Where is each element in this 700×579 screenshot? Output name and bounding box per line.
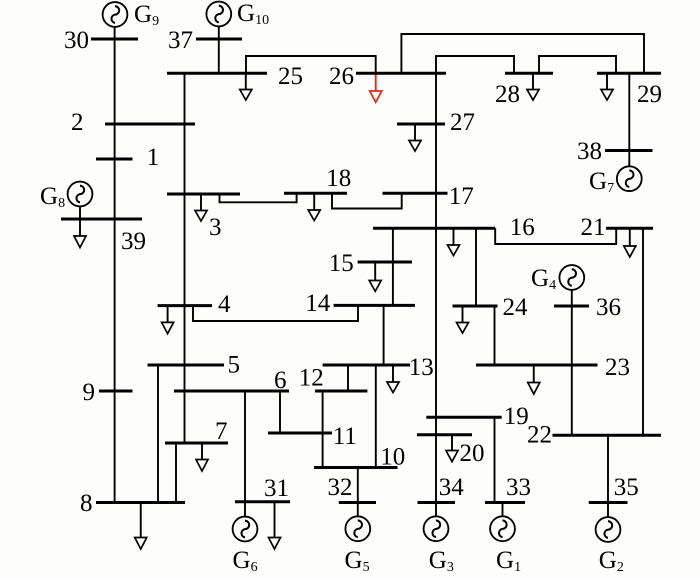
- svg-text:G6: G6: [233, 547, 258, 575]
- svg-text:6: 6: [274, 367, 287, 394]
- svg-text:14: 14: [305, 290, 331, 317]
- svg-text:G8: G8: [40, 183, 65, 211]
- svg-text:30: 30: [64, 27, 89, 54]
- svg-text:33: 33: [506, 474, 531, 501]
- svg-text:22: 22: [527, 422, 552, 449]
- svg-text:5: 5: [228, 352, 241, 379]
- svg-text:31: 31: [264, 475, 289, 502]
- svg-text:G9: G9: [134, 1, 159, 29]
- svg-text:G10: G10: [237, 0, 269, 28]
- svg-text:G5: G5: [345, 547, 370, 575]
- svg-text:G2: G2: [599, 547, 624, 575]
- svg-text:32: 32: [328, 474, 353, 501]
- svg-text:11: 11: [333, 423, 357, 450]
- svg-text:10: 10: [380, 444, 405, 471]
- svg-text:2: 2: [71, 109, 84, 136]
- svg-text:38: 38: [577, 138, 602, 165]
- svg-text:7: 7: [215, 418, 228, 445]
- svg-text:20: 20: [460, 440, 485, 467]
- svg-text:G1: G1: [496, 547, 521, 575]
- svg-text:G3: G3: [429, 547, 454, 575]
- svg-text:4: 4: [218, 291, 231, 318]
- svg-text:19: 19: [504, 403, 529, 430]
- svg-text:39: 39: [121, 228, 146, 255]
- svg-text:G7: G7: [589, 168, 614, 196]
- svg-text:8: 8: [80, 490, 93, 517]
- svg-text:29: 29: [637, 81, 662, 108]
- svg-text:25: 25: [278, 63, 303, 90]
- svg-text:34: 34: [439, 474, 465, 501]
- svg-text:12: 12: [299, 365, 324, 392]
- svg-text:23: 23: [605, 354, 630, 381]
- svg-text:17: 17: [449, 183, 474, 210]
- svg-text:36: 36: [596, 294, 621, 321]
- svg-text:13: 13: [409, 354, 434, 381]
- svg-text:3: 3: [209, 214, 222, 241]
- svg-text:35: 35: [614, 474, 639, 501]
- svg-text:26: 26: [329, 63, 354, 90]
- svg-text:18: 18: [326, 165, 351, 192]
- svg-text:15: 15: [329, 250, 354, 277]
- svg-text:21: 21: [581, 214, 606, 241]
- svg-text:28: 28: [495, 81, 520, 108]
- svg-text:37: 37: [168, 27, 193, 54]
- svg-text:G4: G4: [531, 265, 556, 293]
- svg-text:16: 16: [510, 214, 535, 241]
- svg-text:24: 24: [503, 294, 529, 321]
- svg-text:9: 9: [83, 379, 96, 406]
- svg-text:1: 1: [147, 144, 160, 171]
- svg-text:27: 27: [450, 109, 475, 136]
